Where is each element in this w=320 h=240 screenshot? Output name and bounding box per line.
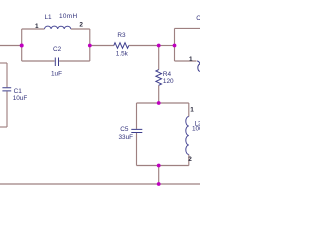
wire: node C down <box>174 46 176 62</box>
wire: R4 bottom lead to node D <box>158 85 160 103</box>
wire: ground rail <box>0 183 200 185</box>
svg-text:10uF: 10uF <box>13 95 28 102</box>
svg-text:R3: R3 <box>117 32 126 39</box>
off-image inductor curl at right edge <box>197 61 200 72</box>
svg-text:120: 120 <box>163 78 174 85</box>
wire: LC tank top edge left lead <box>22 28 45 30</box>
capacitor C1 plates <box>2 88 11 91</box>
svg-text:1: 1 <box>189 56 193 63</box>
wire: LC tank top edge right lead <box>71 28 90 30</box>
svg-text:L1: L1 <box>45 14 53 21</box>
wire: R3 right lead to node B <box>129 45 159 47</box>
wire: LC tank left edge <box>21 29 23 61</box>
resistor R4 zigzag <box>156 70 162 86</box>
wire: node E down to ground rail <box>158 166 160 185</box>
wire: LC tank bottom edge right lead <box>59 60 90 62</box>
wire: to off-image inductor pin 1 <box>175 60 197 62</box>
inductor L1 coil <box>45 26 71 29</box>
svg-text:1: 1 <box>35 23 39 30</box>
ground rail junction dot <box>157 182 161 186</box>
node A junction dot <box>20 44 24 48</box>
wire: C1 top lead <box>6 63 8 87</box>
node B junction dot <box>157 44 161 48</box>
wire: block2 top edge <box>137 102 189 104</box>
svg-text:C: C <box>196 15 200 22</box>
wire: C1 bottom to left edge <box>0 126 7 128</box>
wire: top-right horizontal off image <box>175 27 201 29</box>
junction dot LC right <box>88 44 92 48</box>
wire: node C up to top-right corner <box>174 28 176 45</box>
svg-text:2: 2 <box>188 156 192 163</box>
node D junction dot <box>157 101 161 105</box>
svg-text:1uF: 1uF <box>51 71 62 78</box>
svg-text:1.5k: 1.5k <box>116 50 129 57</box>
wire: left input to C1 <box>0 62 7 64</box>
resistor R3 zigzag <box>114 43 129 49</box>
capacitor C5 plates <box>131 129 142 132</box>
wire: LC tank right edge <box>89 29 91 61</box>
svg-text:10mH: 10mH <box>59 13 77 20</box>
wire: block2 right edge upper lead <box>188 103 190 117</box>
svg-text:C1: C1 <box>14 88 23 95</box>
wire: left input to node A <box>0 45 22 47</box>
svg-text:2: 2 <box>79 21 83 28</box>
svg-text:R4: R4 <box>163 71 172 78</box>
svg-text:C5: C5 <box>120 126 129 133</box>
wire: R4 top lead <box>158 46 160 70</box>
svg-text:100: 100 <box>192 126 200 133</box>
wire: LC tank bottom edge left lead <box>22 60 55 62</box>
node E junction dot <box>157 164 161 168</box>
capacitor C2 plates <box>55 58 58 67</box>
wire: R3 left lead <box>90 45 114 47</box>
wire: block2 left edge upper lead <box>136 103 138 129</box>
wire: block2 bottom edge <box>137 165 189 167</box>
svg-text:C2: C2 <box>53 46 62 53</box>
svg-text:1: 1 <box>190 107 194 114</box>
wire: block2 left edge lower lead <box>136 133 138 166</box>
wire: node B to node C <box>159 45 175 47</box>
wire: C1 bottom lead <box>6 91 8 127</box>
svg-text:33uF: 33uF <box>119 134 134 141</box>
wire: block2 right edge lower lead <box>188 155 190 166</box>
node C junction dot <box>173 44 177 48</box>
inductor L2 coil <box>186 117 189 155</box>
